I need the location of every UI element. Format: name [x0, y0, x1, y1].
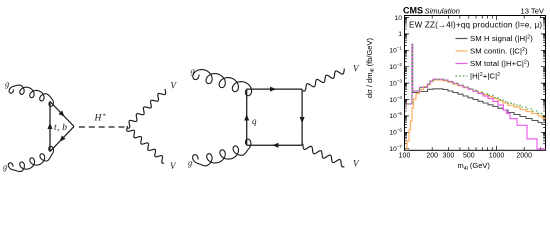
gluon g (bottom left, diagram 1)	[8, 146, 53, 171]
plot frame	[405, 16, 546, 151]
svg-text:1: 1	[398, 31, 402, 38]
svg-text:g: g	[191, 66, 195, 76]
arrow up on box left	[244, 114, 249, 120]
quark box left side	[246, 89, 248, 145]
svg-text:q: q	[252, 116, 257, 126]
wavy V boson (upper, diagram 1)	[128, 89, 166, 128]
fermion triangle loop left side (t/b quark)	[49, 102, 51, 152]
svg-text:13 TeV: 13 TeV	[520, 7, 544, 16]
svg-text:g: g	[5, 79, 9, 89]
svg-text:SM H signal (|H|2): SM H signal (|H|2)	[470, 34, 533, 43]
svg-text:g: g	[3, 162, 7, 172]
svg-text:EW ZZ(→4l)+qq production (l=e,: EW ZZ(→4l)+qq production (l=e, μ)	[409, 21, 542, 30]
gluon g (top left, diagram 2)	[193, 70, 252, 96]
svg-text:g: g	[188, 158, 192, 168]
gluon g (top left, diagram 1)	[9, 85, 53, 106]
arrow left on box bottom	[272, 143, 278, 148]
svg-text:100: 100	[399, 153, 411, 160]
arrow down-left on triangle bottom side	[59, 135, 65, 141]
svg-text:t, b: t, b	[54, 123, 67, 133]
legend marker H2+C2	[456, 75, 468, 77]
arrow down on box right	[300, 117, 305, 123]
arrow down-right on triangle top side	[58, 110, 64, 116]
dashed Higgs propagator H*	[79, 126, 125, 128]
arrow up on triangle left side	[48, 123, 53, 129]
fermion triangle top side	[50, 102, 74, 127]
arrow right on box top	[270, 87, 276, 92]
wavy V boson (lower, diagram 2)	[303, 144, 345, 167]
axis tick marks	[405, 16, 546, 151]
legend marker SM H signal	[456, 38, 468, 40]
curve SM H signal |H|^2 (gray histogram)	[405, 45, 546, 125]
svg-text:10: 10	[394, 15, 402, 22]
svg-text:|H|2+|C|2: |H|2+|C|2	[470, 72, 500, 81]
svg-text:300: 300	[443, 153, 455, 160]
curve |H|^2+|C|^2 (green dotted histogram)	[405, 44, 546, 115]
svg-text:Simulation: Simulation	[425, 7, 460, 16]
svg-text:SM total (|H+C|2): SM total (|H+C|2)	[470, 59, 530, 68]
svg-text:1000: 1000	[489, 153, 505, 160]
wavy V boson (upper, diagram 2)	[303, 69, 345, 92]
legend marker SM contin	[456, 50, 468, 52]
svg-text:200: 200	[426, 153, 438, 160]
quark box bottom side	[247, 144, 302, 146]
fermion triangle bottom side	[50, 127, 74, 152]
legend marker SM total	[456, 63, 468, 65]
svg-text:SM contin. (|C|2): SM contin. (|C|2)	[470, 47, 528, 56]
gluon g (bottom left, diagram 2)	[193, 139, 251, 166]
svg-text:H: H	[94, 114, 103, 124]
curve SM total |H+C|^2 (magenta histogram, with Higgs peak spike)	[405, 44, 546, 149]
svg-text:CMS: CMS	[403, 6, 423, 16]
wavy V boson (lower, diagram 1)	[127, 126, 164, 163]
quark box top side	[247, 88, 302, 90]
quark box right side	[301, 89, 303, 145]
curve SM continuum |C|^2 (orange histogram)	[405, 80, 546, 152]
svg-text:500: 500	[463, 153, 475, 160]
svg-text:2000: 2000	[516, 153, 532, 160]
